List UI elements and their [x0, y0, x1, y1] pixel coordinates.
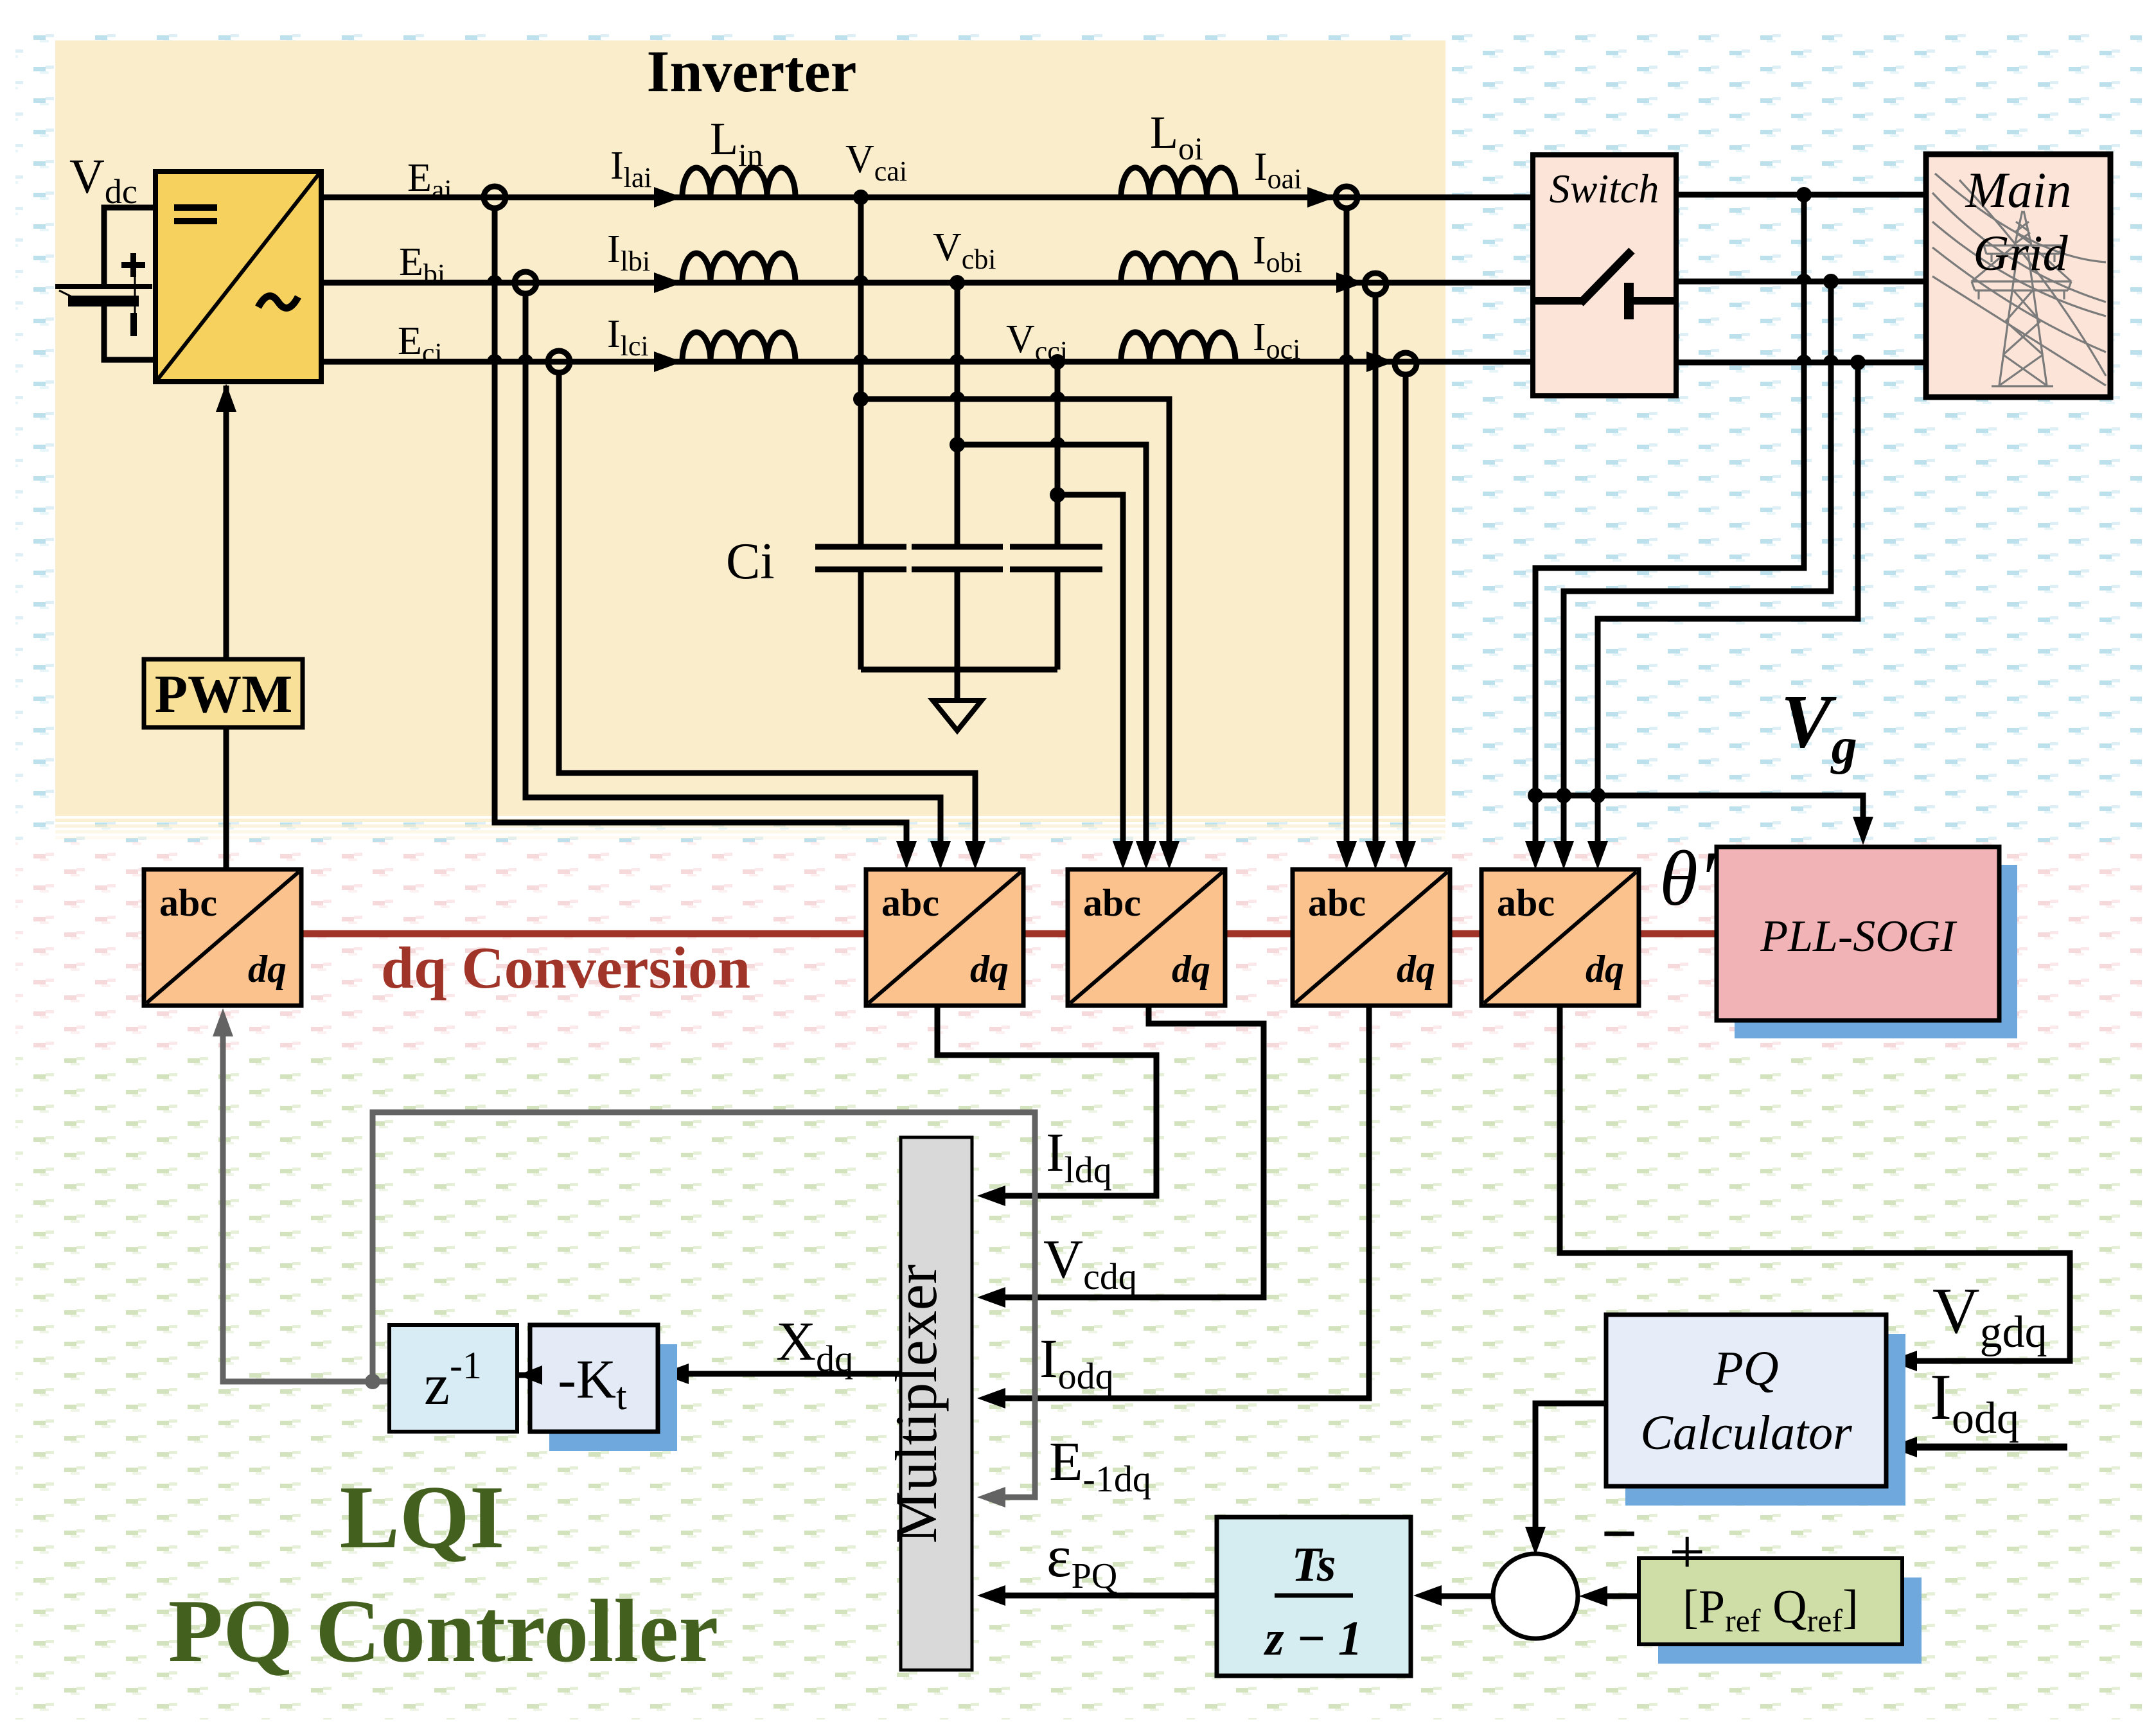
tap ring Ioci on phase C — [1395, 353, 1417, 375]
arrowhead phase C before Lin — [654, 351, 682, 372]
svg-text:θ′: θ′ — [1659, 835, 1717, 922]
inductor Lin phase C — [682, 332, 795, 362]
svg-text:Inverter: Inverter — [647, 39, 857, 104]
inverter U0 DC symbol — [174, 204, 217, 211]
wire Vcbi sense tap to U3 — [950, 437, 965, 452]
arrowhead Ioci into U4 — [1395, 841, 1416, 869]
arrowhead into sum top — [1525, 1527, 1546, 1555]
wire capacitor bottoms to bus — [858, 569, 864, 670]
-Kt block — [530, 1325, 658, 1432]
inductor Loi phase B — [1121, 253, 1235, 283]
arrowhead Vcbi into U3 — [1136, 841, 1156, 869]
wire Ilci sense to U2 — [559, 373, 975, 851]
arrowhead gray into U1 — [213, 1008, 233, 1036]
tap ring Ioai on phase A — [1336, 186, 1357, 208]
svg-text:dq: dq — [1172, 948, 1210, 990]
ground — [933, 700, 982, 731]
wire U5 output Vgdq to PQ calculator — [1560, 1006, 2070, 1361]
wire multiplexer output Xdq to -Kt — [673, 1371, 901, 1377]
Main Grid block — [1926, 154, 2110, 397]
wire Vgc route to U5 — [1598, 362, 1858, 851]
svg-text:PQ Controller: PQ Controller — [168, 1581, 719, 1681]
battery V1 wires — [104, 208, 155, 285]
svg-text:dq: dq — [1397, 948, 1435, 990]
arrowhead into Ts — [1413, 1585, 1442, 1606]
crossing bump Vcbi wire over vertical C — [1050, 437, 1065, 445]
node Vcci junction — [1050, 354, 1065, 369]
arrowhead Iodq into PQ calculator — [1889, 1437, 1917, 1457]
arrowhead Vgb into U5 — [1553, 841, 1574, 869]
svg-text:abc: abc — [881, 882, 939, 924]
abc/dq converter U3 — [1068, 869, 1225, 1006]
arrowhead Ioai into U4 — [1336, 841, 1357, 869]
wire phase A (Eai line, inverter to switch) — [321, 195, 1533, 200]
crossing bump Vcai wire over vertical B — [950, 391, 965, 399]
inductor Loi phase A — [1121, 168, 1235, 197]
tap ring Ilci on phase C — [548, 351, 570, 373]
crossing bump Ioai wire over phase C — [1339, 354, 1354, 362]
svg-text:abc: abc — [1497, 882, 1555, 924]
node Vg bus dot c — [1590, 788, 1605, 803]
svg-text:Calculator: Calculator — [1640, 1406, 1852, 1460]
wire Vcai sense tap to U3 — [853, 391, 869, 407]
svg-text:abc: abc — [1308, 882, 1366, 924]
crossing bump Ilbi wire over phase C — [518, 354, 533, 362]
arrowhead Ildq into multiplexer — [977, 1186, 1005, 1206]
Multiplexer block — [901, 1137, 972, 1670]
wire Vgb route to U5 — [1564, 281, 1831, 851]
abc/dq converter U4 — [1293, 869, 1450, 1006]
background texture bottom (green striped) — [15, 1054, 2142, 1720]
wire phase C (switch to main grid) — [1676, 360, 1927, 366]
svg-text:Ts: Ts — [1291, 1538, 1336, 1592]
wire PWM down to U1 — [224, 727, 229, 869]
wire Vga route to U5 — [1535, 195, 1804, 851]
arrowhead Vcci into U3 — [1113, 841, 1133, 869]
svg-text:Multiplexer: Multiplexer — [883, 1265, 949, 1543]
inductor Loi phase C — [1121, 332, 1235, 362]
wire -Kt output to z-1 — [517, 1373, 548, 1378]
svg-text:−: − — [1601, 1498, 1638, 1569]
node PCC C junction — [1850, 355, 1866, 370]
capacitor Ci phase B plates — [912, 544, 1003, 550]
background texture top (blue striped) — [15, 27, 2142, 842]
node Vcbi junction — [950, 275, 965, 290]
arrowhead Iobi into U4 — [1365, 841, 1386, 869]
svg-text:abc: abc — [1083, 882, 1141, 924]
arrowhead gray E-1dq into multiplexer — [977, 1487, 1005, 1507]
wire phase A (switch to main grid) — [1676, 192, 1927, 198]
capacitor Ci phase A plates — [815, 544, 906, 550]
inductor Lin phase B — [682, 253, 795, 283]
node gray junction — [365, 1374, 380, 1389]
wire Ilbi sense to U2 — [526, 294, 941, 851]
svg-text:abc: abc — [159, 882, 217, 924]
arrowhead into sum right — [1579, 1586, 1607, 1606]
arrowhead Iodq into multiplexer — [977, 1388, 1005, 1409]
abc/dq converter U2 — [866, 869, 1023, 1006]
wire phase B (switch to main grid) — [1676, 279, 1927, 285]
wire Vg bus to PLL — [1535, 795, 1863, 829]
arrowhead Xdq into -Kt — [660, 1364, 689, 1384]
wire Ioai sense to U4 — [1344, 208, 1350, 851]
PLL-SOGI block — [1717, 847, 1999, 1020]
Ts block — [1217, 1517, 1411, 1676]
arrowhead epsilonPQ into multiplexer — [977, 1585, 1005, 1606]
crossing bump Vcai wire over vertical C — [1050, 391, 1065, 399]
tap ring Iobi on phase B — [1365, 273, 1386, 295]
arrowhead Vcdq into multiplexer — [977, 1287, 1005, 1308]
svg-text:dq: dq — [970, 948, 1009, 990]
arrowhead Vcai into U3 — [1159, 841, 1180, 869]
inductor Lin phase A — [682, 168, 795, 197]
svg-text:dq Conversion: dq Conversion — [381, 935, 750, 1000]
abc/dq converter U1 — [144, 869, 301, 1006]
wire Vcci node down to capacitor C3 — [1055, 362, 1061, 547]
svg-text:z − 1: z − 1 — [1263, 1612, 1363, 1666]
wire Ts output epsilonPQ to multiplexer — [993, 1593, 1217, 1599]
arrowhead phase B before Lin — [654, 272, 682, 293]
arrowhead phase A before Ioai tap — [1307, 187, 1336, 208]
svg-text:PLL-SOGI: PLL-SOGI — [1760, 912, 1957, 961]
svg-text:+: + — [1669, 1516, 1705, 1587]
node PCC B junction — [1823, 274, 1839, 289]
tap ring Ilai on phase A — [484, 186, 506, 208]
svg-text:Main: Main — [1965, 162, 2072, 218]
arrowhead Ilci into U2 — [965, 841, 985, 869]
arrowhead Ilai into U2 — [896, 841, 917, 869]
arrowhead Vg into PLL — [1853, 817, 1873, 845]
arrowhead into z-1 — [518, 1365, 542, 1385]
battery V1 minus tick — [134, 276, 136, 313]
Pref Qref block — [1639, 1558, 1902, 1644]
wire gray z-1 output to U1 — [223, 1026, 389, 1382]
inverter U0 box — [155, 172, 321, 382]
battery V1 plus sign — [121, 262, 145, 268]
arrowhead Vga into U5 — [1525, 841, 1546, 869]
wire Vcbi node down to capacitor C2 — [955, 283, 960, 547]
svg-text:dq: dq — [248, 948, 287, 990]
crossing bump Ioai wire over phase B — [1339, 275, 1354, 283]
wire PQ calculator output to sum — [1535, 1403, 1606, 1539]
svg-text:PQ: PQ — [1713, 1342, 1778, 1396]
wire phase C (Eci line, inverter to switch) — [321, 359, 1533, 365]
wire PWM to inverter — [224, 386, 229, 659]
Switch block — [1533, 155, 1676, 396]
wire Iodq stub to PQ calculator — [1904, 1444, 2067, 1451]
wire Ioci sense to U4 — [1403, 375, 1409, 851]
PLL-SOGI shadow — [1735, 865, 2017, 1038]
arrowhead Vgc into U5 — [1587, 841, 1608, 869]
crossing bump Ilai wire over phase C — [487, 354, 502, 362]
crossing bump Iobi wire over phase C — [1368, 354, 1383, 362]
background texture middle (pink striped) — [15, 842, 2142, 1054]
crossing bump vertical A over phase C — [853, 354, 869, 362]
svg-text:dq: dq — [1586, 948, 1624, 990]
capacitor Ci phase C plates — [1010, 544, 1102, 550]
wire phase B (Ebi line, inverter to switch) — [321, 280, 1533, 286]
wire sum to Ts — [1429, 1594, 1492, 1599]
-Kt shadow — [549, 1344, 677, 1451]
wire U4 output Iodq to multiplexer — [993, 1006, 1369, 1398]
wire Iobi sense to U4 — [1373, 295, 1379, 851]
PWM block — [144, 659, 303, 727]
arrowhead phase A before Lin — [654, 187, 682, 208]
crossing bump Ilai wire over phase B — [487, 275, 502, 283]
arrowhead phase C before Ioci tap — [1366, 351, 1395, 372]
node Vcai junction — [853, 190, 869, 205]
crossing bump vertical B over phase C — [950, 354, 965, 362]
inverter U0 AC symbol — [258, 296, 298, 308]
wire gray feedback E-1dq to multiplexer — [373, 1112, 1035, 1497]
Inverter yellow region — [55, 40, 1445, 813]
node Vg bus dot b — [1556, 788, 1571, 803]
svg-text:Ci: Ci — [726, 533, 775, 590]
inverter U0 diagonal — [157, 173, 319, 380]
switch S1 symbol — [1533, 297, 1583, 305]
net dq conversion red bus — [301, 930, 1717, 938]
Pref shadow — [1658, 1577, 1922, 1664]
crossing bump vertical A over phase B — [853, 275, 869, 283]
battery V1 plates — [55, 284, 152, 289]
crossing bump PCC B over phase C — [1823, 355, 1839, 362]
wire Ilai sense to U2 — [495, 208, 906, 851]
crossing bump PCC A over phase C — [1796, 355, 1812, 362]
arrowhead Ilbi into U2 — [930, 841, 951, 869]
wire U2 output Ildq to multiplexer — [937, 1006, 1156, 1196]
PQ Calculator shadow — [1625, 1334, 1905, 1506]
node PCC A junction — [1796, 187, 1812, 202]
arrowhead Vgdq into PQ calculator — [1889, 1351, 1917, 1371]
wire Vcci sense tap to U3 — [1050, 487, 1065, 502]
wire Pref block to sum — [1595, 1594, 1639, 1599]
node Vg bus dot a — [1528, 788, 1543, 803]
z-1 block — [389, 1325, 517, 1432]
svg-text:LQI: LQI — [340, 1468, 505, 1567]
arrowhead PWM into inverter — [216, 384, 236, 412]
svg-text:Grid: Grid — [1973, 225, 2068, 281]
abc/dq converter U5 — [1481, 869, 1639, 1006]
sum junction S2 — [1493, 1554, 1578, 1639]
tap ring Ilbi on phase B — [515, 272, 536, 294]
wire U3 output Vcdq to multiplexer — [993, 1006, 1264, 1297]
svg-text:Switch: Switch — [1550, 166, 1659, 211]
arrowhead phase B before Iobi tap — [1336, 272, 1365, 293]
PQ Calculator block — [1606, 1315, 1886, 1486]
main grid tower art — [1932, 173, 2106, 386]
crossing bump PCC A over phase B — [1796, 274, 1812, 281]
wire Vcai node down to capacitor C1 — [858, 197, 864, 547]
svg-text:PWM: PWM — [155, 664, 293, 724]
